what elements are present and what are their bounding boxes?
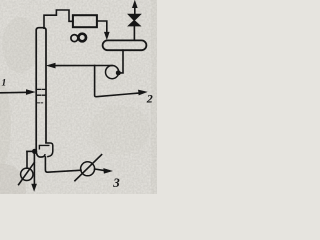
wire: valve to top arrow [134,6,136,14]
condenser coil symbol (infinity), left loop [71,35,78,42]
wire: drum bottom outlet to pump [119,50,123,73]
arrow right (bottoms 3) [104,169,112,174]
pump U4 (bottoms pump) [81,162,95,176]
svg-text:2: 2 [146,92,153,106]
condenser coil symbol (infinity), right loop [78,34,86,42]
paper shading [0,0,157,216]
condenser box [73,15,97,27]
arrow right (distillate 2) [138,90,146,95]
arrow up (vent) [132,1,137,8]
tray (dashed, faint) [37,102,43,104]
arrow into drum (down) [104,32,109,39]
wire: branch down to distillate line [95,66,138,97]
wire: feed line 1 into column [1,91,28,94]
wire: column bottoms outlet to pump U4 [45,157,81,172]
column bottom dome [36,151,45,158]
pump U3 diagonal tangent [19,163,35,185]
tray (dashed) [37,94,47,96]
pump U4 diagonal tangent [75,155,102,181]
wire: pump discharge / reflux line to column [54,65,113,67]
arrow down (drain) [32,184,37,191]
wire: vapour riser from column top to condenser [44,10,73,28]
paper background [0,0,157,194]
column bottom right skirt pipe [46,143,53,157]
junction node at pump inlet [116,70,121,75]
wire: down to bottoms pump [26,151,28,168]
arrow into column (left) [47,63,55,68]
column body (rectification column) [36,28,46,152]
wire: drum to vent valve [133,26,135,39]
wire: bottoms product line [95,169,105,171]
wire: draw-off stub to left [27,150,36,152]
wire: condenser outlet to reflux drum [97,21,107,34]
pump U2 (reflux/distillate pump) [106,66,119,79]
reflux drum (horizontal vessel) [103,40,147,50]
junction node on column wall (bottoms draw) [32,149,37,154]
wire: drain line with down arrow [33,152,35,185]
pump U3 (bottom-left pump) [21,168,33,180]
svg-text:3: 3 [112,175,120,190]
svg-text:1: 1 [2,79,7,89]
arrow into column (feed) [26,90,34,95]
reboiler return pipe into column bottom [39,145,48,148]
valve (gate valve, hourglass) [129,21,141,26]
tray (dashed) [37,88,44,90]
